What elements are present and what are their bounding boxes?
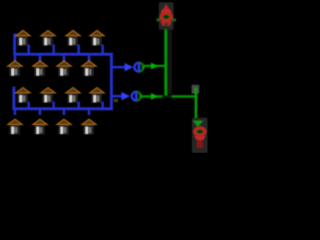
stray olive mark near right bus	[114, 99, 118, 102]
wire: blue bus rail 2	[12, 107, 113, 110]
lamp row1 col2	[41, 30, 56, 45]
wire: left vertical segment A	[13, 34, 16, 54]
wire: stub lamp row2 col3	[63, 56, 65, 61]
wire: inverter U1 input	[113, 66, 125, 69]
LED D1 (top, lit red)	[156, 2, 176, 30]
wire: direction arrow on U1 input	[125, 63, 134, 72]
wire: direction arrow on U2 input	[121, 92, 130, 101]
lamp row1 col4	[90, 30, 105, 45]
faint vertical shadow band right of LED D1 net	[167, 28, 171, 94]
lamp row2 col4	[82, 61, 97, 76]
wire: stub lamp row2 col1	[14, 56, 17, 61]
lamp row4 col2	[33, 119, 48, 134]
wire: inverter U2 input	[113, 95, 122, 98]
wire: stub lamp row3 col2	[53, 102, 55, 108]
wire: stub from left vertical to lamp row1 col1	[16, 34, 19, 37]
wire: stub lamp row1 col3	[78, 45, 80, 53]
lamp row1 col1	[16, 30, 31, 45]
wire: stub lamp row4 col3	[63, 110, 65, 115]
inverter U1 bubble	[134, 63, 143, 72]
lamp row3 col4	[90, 88, 105, 103]
wire: stub lamp row3 col3	[78, 102, 80, 108]
lamp row2 col3	[57, 61, 72, 76]
wire: stub lamp row1 col2	[53, 45, 55, 53]
lamp row3 col3	[66, 88, 81, 103]
wire: stub lamp row2 col4	[88, 56, 91, 61]
wire: right vertical bus (rail1 to rail2)	[110, 53, 113, 110]
wire: direction arrow on U1 output	[151, 63, 158, 70]
wire: stub lamp row4 col4	[88, 110, 91, 115]
wire: U2 output horizontal	[141, 95, 197, 98]
wire: U1 output horizontal	[144, 65, 165, 67]
wire: blue bus rail 1	[13, 53, 113, 56]
wire: stub lamp row2 col2	[39, 56, 42, 61]
inverter U2 bubble	[132, 92, 141, 101]
wire: stub lamp row1 col4	[102, 45, 104, 53]
wire: stub lamp row4 col2	[39, 110, 42, 115]
lamp row3 col1	[16, 88, 31, 103]
wire: left vertical segment B	[12, 87, 15, 108]
lamp row1 col3	[66, 30, 81, 45]
shading band over U2 output wire	[162, 95, 172, 98]
junction marker at U2 output corner	[192, 85, 200, 94]
wire: stub lamp row4 col1	[14, 110, 17, 115]
wire: vertical net to LED D1	[164, 26, 167, 95]
lamp row2 col2	[33, 61, 48, 76]
wire: vertical net to LED D2	[195, 88, 198, 122]
LED D2 (bottom, lit red, mirrored)	[192, 118, 208, 153]
lamp row4 col4	[82, 119, 97, 134]
wire: stub lamp row3 col4	[102, 102, 104, 108]
lamp row3 col2	[41, 88, 56, 103]
wire: stub lamp row3 col1	[28, 102, 30, 108]
wire: stub lamp row1 col1	[28, 45, 30, 53]
wire: direction arrow on U2 output	[151, 93, 158, 100]
lamp row4 col3	[57, 119, 72, 134]
lamp row2 col1	[8, 61, 23, 76]
lamp row4 col1	[8, 119, 23, 134]
